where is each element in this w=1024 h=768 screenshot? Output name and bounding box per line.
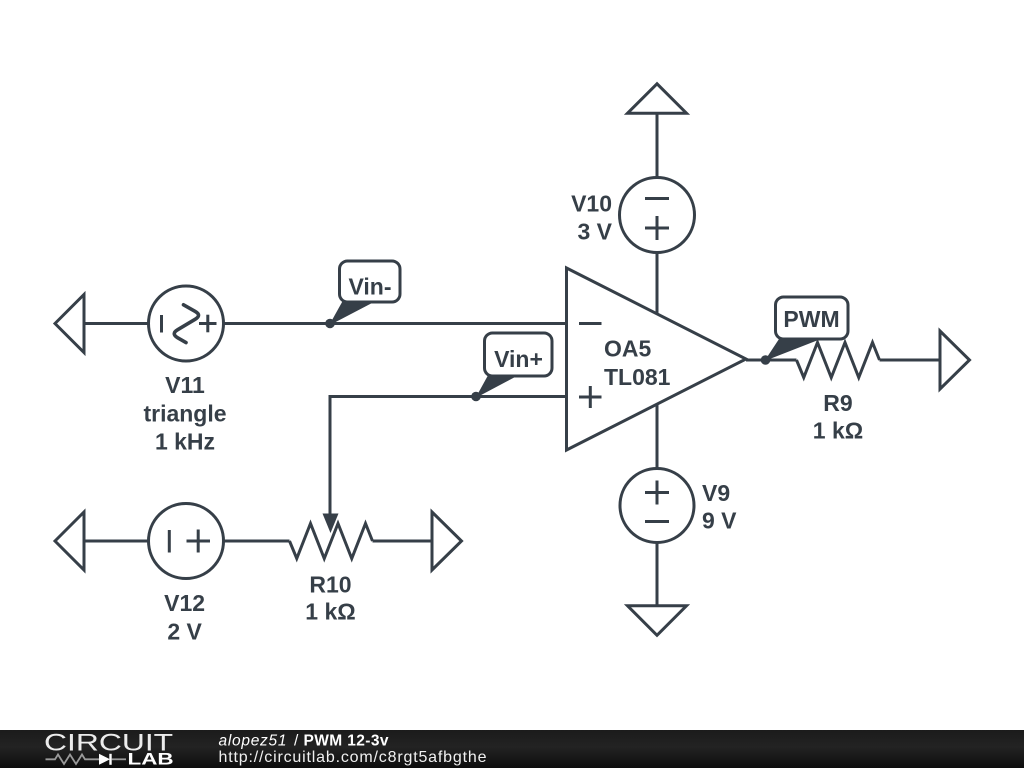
svg-text:triangle: triangle [143,400,226,426]
CircuitLab logo wordmark LAB [128,750,174,768]
wire op-amp noninverting input row [330,395,567,398]
svg-text:1 kΩ: 1 kΩ [813,418,863,444]
wire down to R10 wiper [329,395,332,516]
svg-text:9 V: 9 V [702,508,737,534]
terminal flag left arrow (V12 minus net) [55,512,84,570]
wire V12 left pin [84,540,149,543]
node flag PWM [765,297,849,361]
svg-text:Vin+: Vin+ [494,346,543,372]
wire V11 left pin [84,322,149,325]
svg-text:PWM: PWM [783,306,839,332]
svg-text:1 kHz: 1 kHz [155,428,215,454]
node dot Vin+ [471,392,481,402]
potentiometer R10 [290,524,373,559]
label V12 value [164,590,205,645]
CircuitLab logo resistor squiggle [46,755,100,765]
label V9 value [702,480,737,534]
wire V9 to bottom arrow [656,543,659,607]
footer bar [0,730,1024,768]
svg-text:V10: V10 [571,191,612,217]
svg-text:/: / [294,733,299,750]
svg-text:V9: V9 [702,480,730,506]
svg-text:2 V: 2 V [167,619,202,645]
power flag up arrow (V+ net) [628,84,687,113]
wire V10 bottom pin to op-amp V+ pin [656,253,659,314]
resistor R9 [797,343,880,378]
node dot PWM [761,355,771,365]
svg-text:OA5: OA5 [604,336,652,362]
svg-text:http://circuitlab.com/c8rgt5af: http://circuitlab.com/c8rgt5afbgthe [219,749,487,766]
svg-text:TL081: TL081 [604,364,671,390]
node dot Vin- [325,319,335,329]
svg-text:LAB: LAB [128,750,174,768]
terminal flag left arrow (V11 minus net) [55,295,84,353]
node flag Vin- [329,261,400,326]
terminal flag right arrow (output) [940,331,970,389]
svg-text:V12: V12 [164,590,205,616]
R10 wiper arrowhead [323,514,339,534]
label V10 value [571,191,613,245]
wire R9 to output terminal [880,359,941,362]
voltage source V9 [620,469,694,543]
svg-text:1 kΩ: 1 kΩ [305,599,355,625]
svg-text:Vin-: Vin- [348,274,391,300]
power flag down arrow (V- net) [628,606,687,636]
voltage source V12 [149,504,224,579]
wire V11 right pin to op-amp inverting input [224,322,567,325]
svg-text:R9: R9 [823,390,852,416]
wire op-amp output [746,359,797,362]
CircuitLab logo wordmark CIRCUIT [44,729,173,757]
svg-text:V11: V11 [165,372,205,398]
wire op-amp V- pin to V9 [656,404,659,469]
wire V12 to R10 [224,540,290,543]
label R10 value [305,571,355,624]
op-amp OA5 [567,268,747,450]
label R9 value [813,390,863,444]
svg-text:alopez51: alopez51 [219,733,287,750]
voltage source V11 triangle wave [149,286,224,361]
label V11 value [143,372,226,454]
voltage source V10 [620,178,695,253]
svg-text:R10: R10 [309,571,351,597]
svg-text:3 V: 3 V [577,219,612,245]
node flag Vin+ [476,333,553,398]
wire V10 top pin [656,114,659,178]
CircuitLab logo diode [99,754,126,765]
footer author and title [219,733,389,750]
svg-text:PWM 12-3v: PWM 12-3v [304,733,389,750]
wire R10 to right terminal [373,540,433,543]
terminal flag right arrow (R10 right net) [432,512,462,570]
